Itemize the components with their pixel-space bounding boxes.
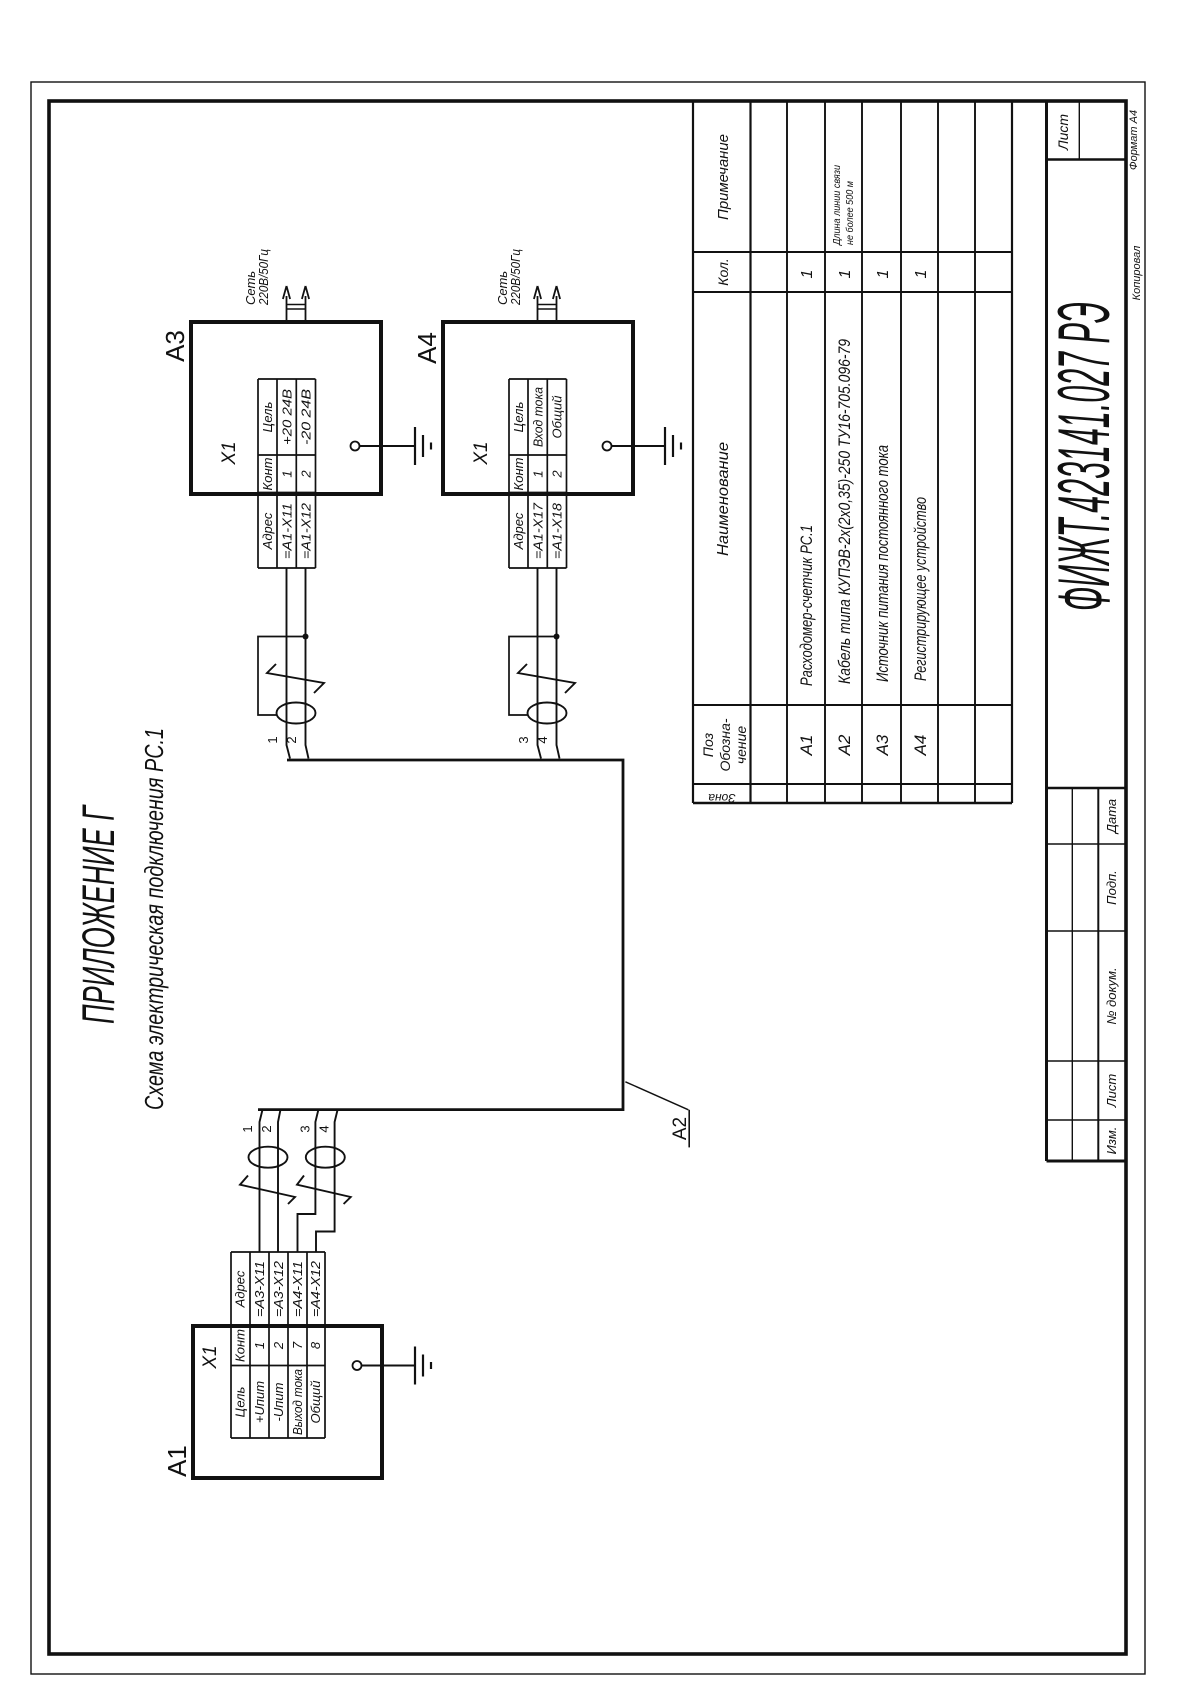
svg-text:4: 4: [535, 736, 550, 743]
svg-text:Выход тока: Выход тока: [290, 1369, 305, 1435]
svg-text:=А1-Х12: =А1-Х12: [299, 502, 314, 559]
svg-text:3: 3: [516, 736, 531, 743]
wire 3 (A1 circuit, jogged): [298, 1110, 319, 1252]
svg-text:Цель: Цель: [260, 401, 275, 432]
twist symbol of A3 cable: [267, 664, 324, 693]
svg-text:Цель: Цель: [511, 401, 526, 432]
mains arrows of A3: [283, 286, 290, 299]
svg-text:А4: А4: [911, 735, 930, 757]
svg-text:Х1: Х1: [471, 441, 492, 465]
svg-text:1: 1: [265, 736, 280, 743]
svg-text:№ докум.: № докум.: [1104, 967, 1119, 1024]
shield connection bracket of A3 cable: [258, 637, 306, 716]
ground wire of A3: [360, 445, 416, 447]
svg-text:А4: А4: [412, 332, 442, 364]
svg-text:=А4-Х12: =А4-Х12: [308, 1260, 323, 1317]
svg-text:Изм.: Изм.: [1104, 1127, 1119, 1155]
device block A4: [443, 322, 633, 494]
svg-text:1: 1: [913, 270, 930, 279]
svg-text:Лист: Лист: [1055, 114, 1071, 151]
svg-text:А1: А1: [797, 735, 816, 757]
svg-text:=А3-Х11: =А3-Х11: [252, 1261, 267, 1317]
ground symbol of A3: [415, 427, 431, 465]
label underline of A2: [688, 1110, 690, 1148]
svg-text:8: 8: [308, 1341, 323, 1349]
svg-text:Общий: Общий: [308, 1381, 323, 1424]
svg-text:Копировал: Копировал: [1131, 246, 1143, 301]
connector table X1 of A4: [509, 379, 567, 568]
wire 4 (A1 circuit, jogged): [316, 1110, 338, 1252]
svg-text:=А1-Х11: =А1-Х11: [280, 503, 295, 559]
svg-text:ФИЖТ.423141.027 РЭ: ФИЖТ.423141.027 РЭ: [1044, 302, 1125, 611]
svg-text:Примечание: Примечание: [715, 134, 732, 220]
shield connection bracket of A4 cable: [509, 637, 557, 716]
svg-text:чение: чение: [733, 726, 749, 765]
svg-text:1: 1: [280, 470, 295, 477]
svg-text:1: 1: [531, 470, 546, 477]
wire 1 (A3 circuit 1): [287, 568, 291, 759]
ground terminal circle of A3: [351, 442, 360, 451]
svg-text:2: 2: [259, 1125, 274, 1132]
ground terminal circle of A1: [353, 1361, 362, 1370]
svg-text:Лист: Лист: [1104, 1074, 1119, 1109]
svg-text:7: 7: [290, 1341, 305, 1349]
svg-text:Вход тока: Вход тока: [531, 387, 546, 447]
svg-text:Дата: Дата: [1104, 799, 1119, 835]
svg-text:-Uпит: -Uпит: [271, 1382, 286, 1421]
svg-text:2: 2: [299, 470, 314, 479]
svg-text:А3: А3: [160, 330, 190, 362]
wire 4 (A4 circuit 2): [557, 568, 560, 759]
cable block A2 (open-top bracket): [258, 760, 623, 1110]
svg-text:Х1: Х1: [200, 1345, 221, 1369]
twist symbol of lower pair 1-2: [240, 1176, 295, 1205]
svg-text:А2: А2: [670, 1117, 691, 1140]
leader line of A2: [625, 1082, 688, 1110]
parts list table grid: [693, 101, 1012, 803]
wire 2 (A1 circuit): [278, 1110, 281, 1252]
svg-text:Х1: Х1: [219, 441, 240, 465]
svg-text:Адрес: Адрес: [260, 512, 275, 550]
twist symbol of lower pair 3-4: [297, 1176, 351, 1205]
svg-text:2: 2: [550, 470, 565, 479]
svg-text:1: 1: [252, 1342, 267, 1349]
svg-text:1: 1: [875, 270, 892, 279]
svg-text:+20 24В: +20 24В: [280, 389, 295, 445]
svg-text:Наименование: Наименование: [715, 442, 732, 556]
wire 3 (A4 circuit 1): [538, 568, 542, 759]
device block A1: [193, 1326, 382, 1478]
shield ellipse of A4 cable: [528, 703, 567, 724]
ground wire of A4: [612, 445, 666, 447]
svg-text:А2: А2: [835, 734, 854, 756]
svg-text:Подп.: Подп.: [1104, 870, 1119, 905]
svg-text:ПРИЛОЖЕНИЕ Г: ПРИЛОЖЕНИЕ Г: [73, 804, 124, 1024]
connector table X1 of A1: [231, 1252, 325, 1438]
ground terminal circle of A4: [603, 442, 612, 451]
svg-text:Адрес: Адрес: [233, 1270, 248, 1308]
svg-text:Схема электрическая подключени: Схема электрическая подключения РС.1: [139, 728, 169, 1110]
svg-text:220В/50Гц: 220В/50Гц: [508, 249, 523, 306]
svg-text:А1: А1: [162, 1445, 192, 1477]
mains wire N of A3: [305, 296, 307, 322]
svg-text:Длина линии связи: Длина линии связи: [831, 165, 843, 246]
svg-text:-20 24В: -20 24В: [299, 389, 314, 445]
svg-text:+Uпит: +Uпит: [252, 1381, 267, 1423]
svg-text:4: 4: [317, 1125, 332, 1132]
svg-text:=А1-Х17: =А1-Х17: [531, 502, 546, 559]
mains double-bar of A4: [538, 308, 557, 310]
svg-text:1: 1: [240, 1125, 255, 1132]
svg-text:=А4-Х11: =А4-Х11: [290, 1261, 305, 1317]
svg-text:3: 3: [298, 1125, 313, 1132]
svg-text:Формат А4: Формат А4: [1128, 110, 1140, 170]
svg-text:А3: А3: [873, 734, 892, 756]
title block strip: [1047, 101, 1127, 1161]
svg-text:Кол.: Кол.: [715, 258, 731, 286]
mains wire L of A4: [537, 296, 539, 322]
svg-text:Общий: Общий: [550, 396, 565, 439]
ground wire of A1: [362, 1365, 416, 1367]
svg-text:Конт: Конт: [511, 457, 526, 490]
ground symbol of A1: [415, 1347, 431, 1385]
svg-text:2: 2: [271, 1341, 286, 1350]
svg-text:220В/50Гц: 220В/50Гц: [256, 249, 271, 306]
svg-text:=А3-Х12: =А3-Х12: [271, 1260, 286, 1317]
wire 1 (A1 circuit): [260, 1110, 263, 1252]
svg-text:Цель: Цель: [233, 1386, 248, 1417]
svg-text:2: 2: [284, 736, 299, 743]
svg-text:1: 1: [799, 270, 816, 279]
shield ellipse of lower pair 3-4: [306, 1147, 345, 1168]
svg-text:не более 500 м: не более 500 м: [844, 181, 856, 245]
mains wire L of A3: [286, 296, 288, 322]
junction dot on wire 4: [554, 634, 560, 640]
wire 2 (A3 circuit 2): [306, 568, 309, 759]
ground symbol of A4: [665, 427, 681, 465]
svg-text:1: 1: [837, 270, 854, 279]
device block A3: [191, 322, 381, 494]
twist symbol of A4 cable: [518, 664, 575, 693]
mains arrows of A4: [534, 286, 541, 299]
svg-text:Зона: Зона: [708, 791, 736, 805]
svg-text:Регистрирующее устройство: Регистрирующее устройство: [911, 497, 930, 681]
svg-text:Поз: Поз: [700, 732, 716, 757]
mains wire N of A4: [556, 296, 558, 322]
junction dot on wire 2: [303, 634, 309, 640]
svg-text:Конт: Конт: [233, 1329, 248, 1362]
mains double-bar of A3: [287, 308, 306, 310]
svg-text:=А1-Х18: =А1-Х18: [550, 502, 565, 559]
shield ellipse of lower pair 1-2: [249, 1147, 288, 1168]
svg-text:Обозна-: Обозна-: [717, 718, 733, 771]
svg-text:Источник питания постоянного т: Источник питания постоянного тока: [873, 445, 892, 682]
svg-text:Адрес: Адрес: [511, 512, 526, 550]
svg-text:Расходомер-счетчик РС.1: Расходомер-счетчик РС.1: [797, 525, 816, 686]
svg-text:Кабель типа КУПЭВ-2х(2х0,35)-2: Кабель типа КУПЭВ-2х(2х0,35)-250 ТУ16-70…: [835, 339, 854, 684]
connector table X1 of A3: [258, 379, 316, 568]
svg-text:Конт: Конт: [260, 457, 275, 490]
shield ellipse of A3 cable: [277, 703, 316, 724]
